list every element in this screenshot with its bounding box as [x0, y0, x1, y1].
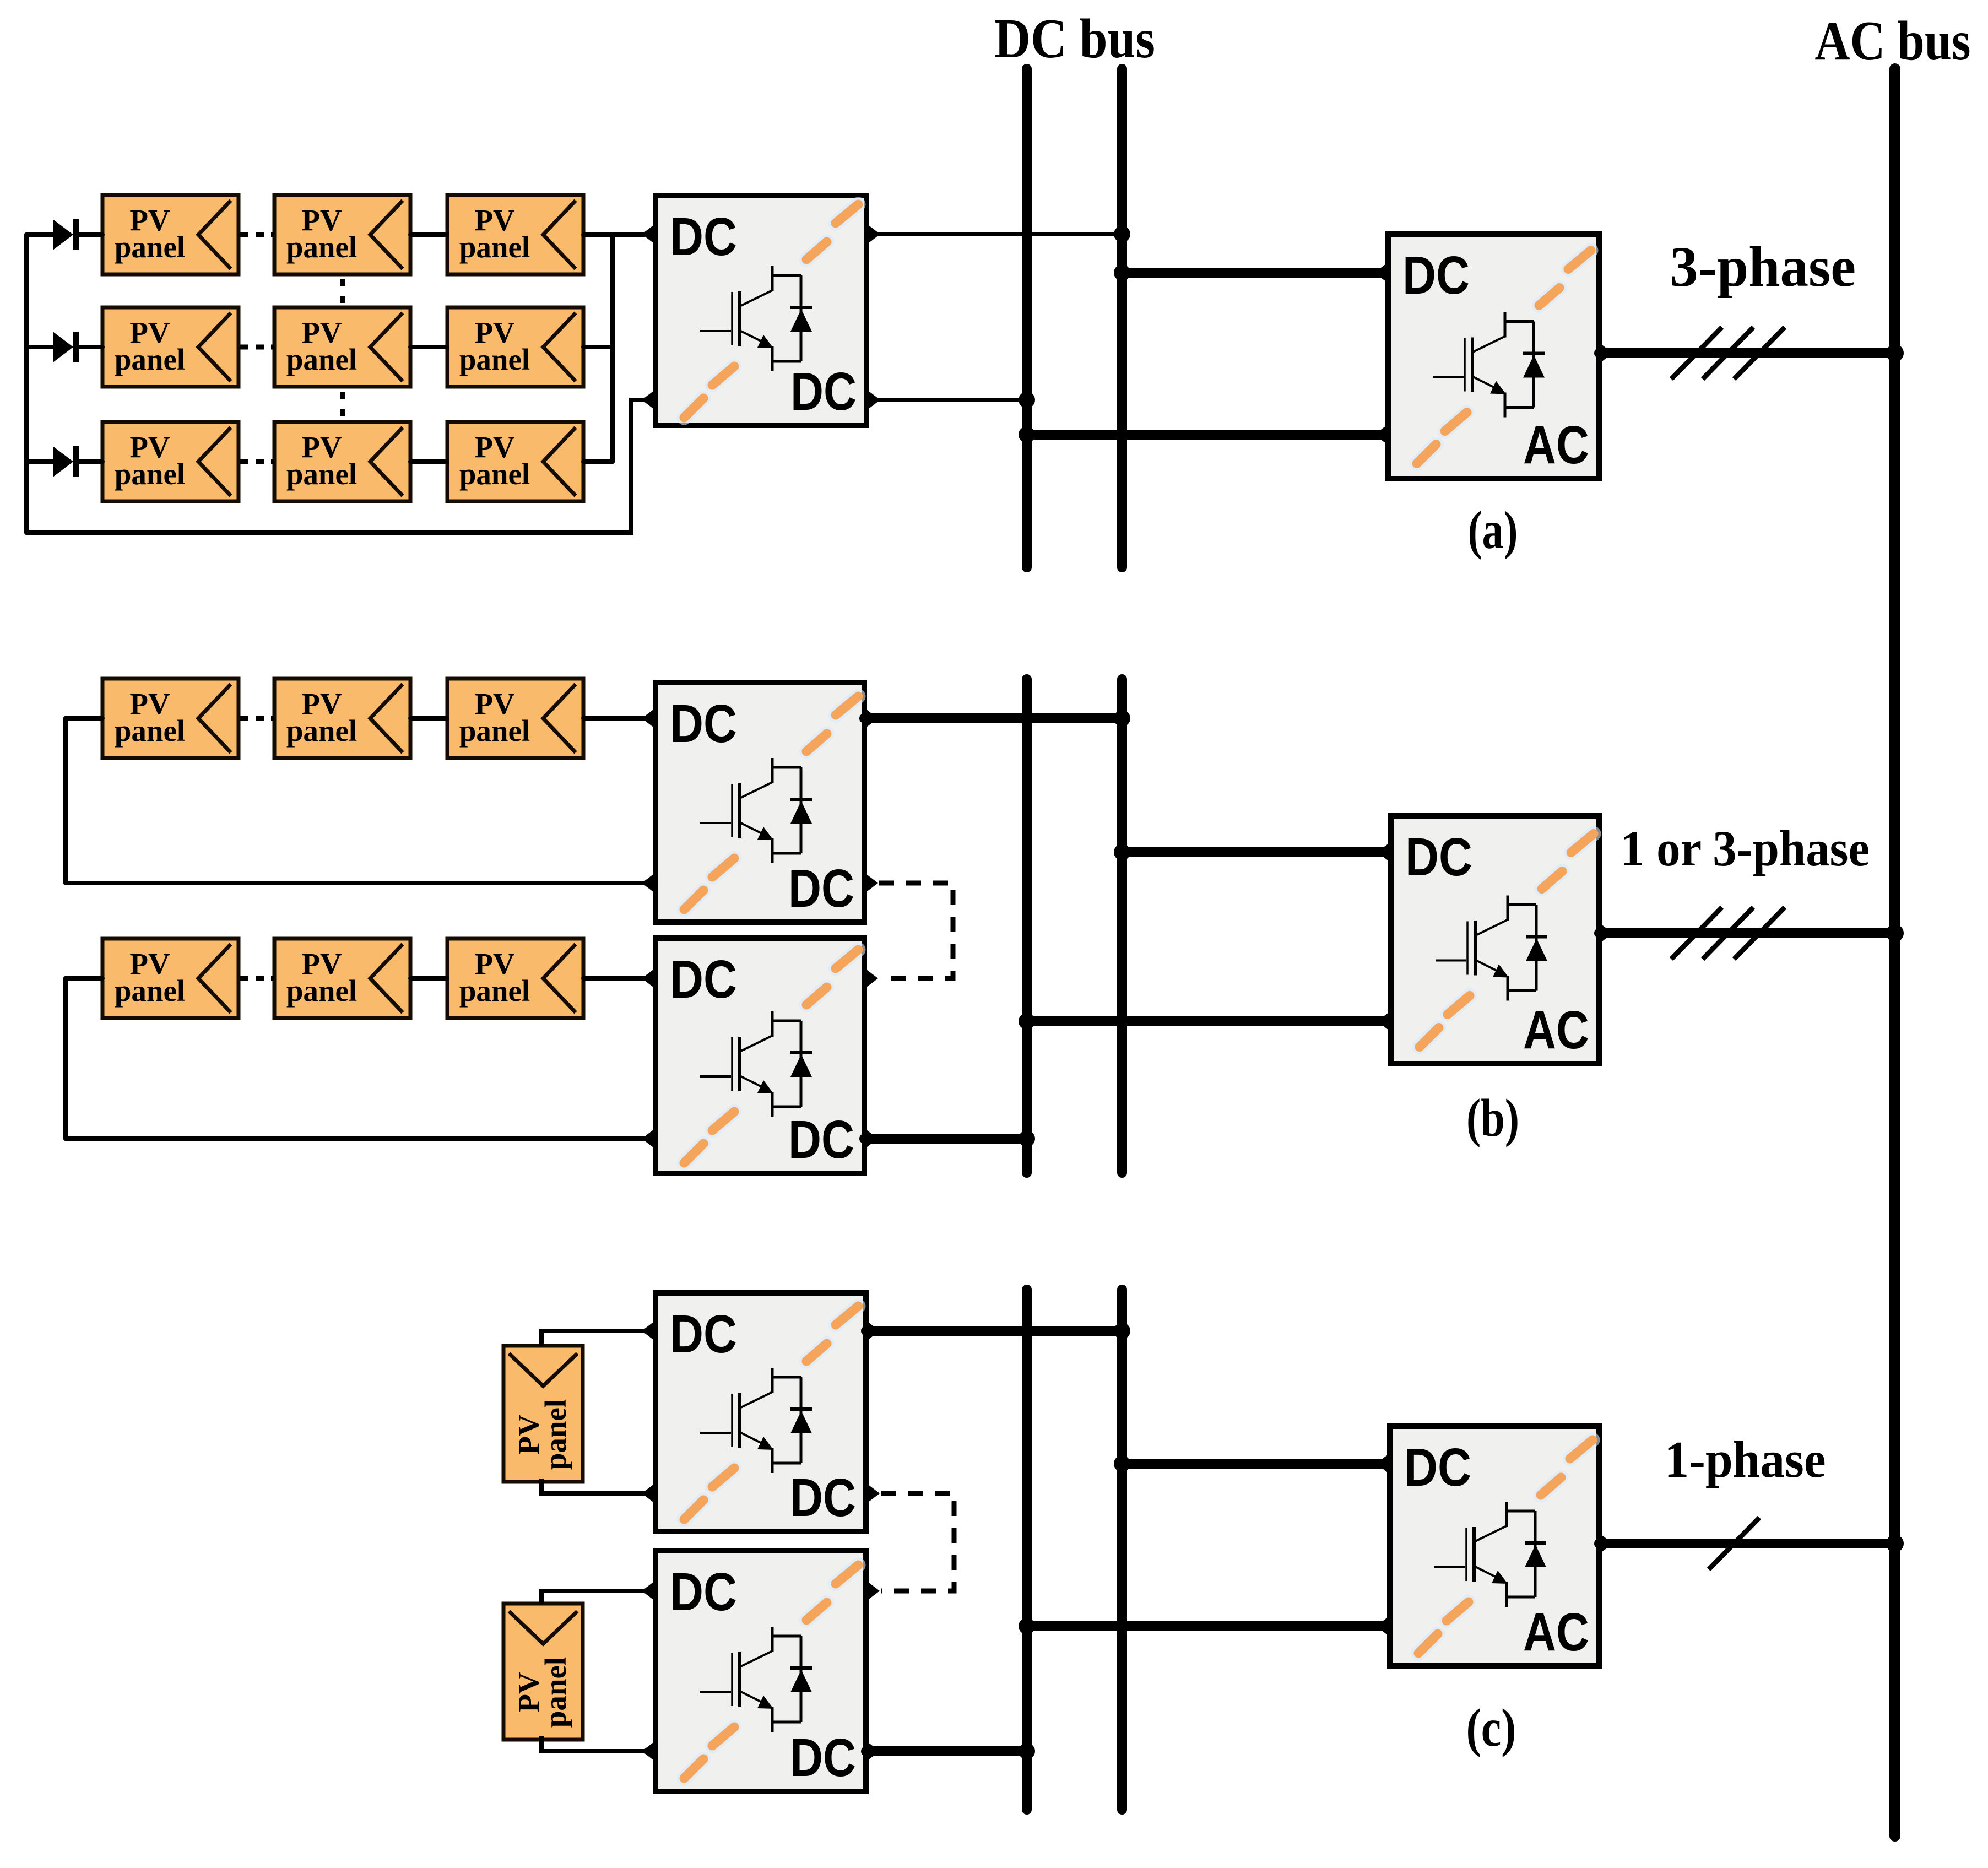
junction: DC bus 2 to U2 tap [1114, 264, 1130, 281]
U3 DC/DC converter (b1): IGBT switch with freewheeling diode [700, 758, 812, 863]
blocking diode D2 [53, 332, 73, 362]
U8 DC/AC inverter (c): orange isolation dashes (top-right) [1541, 1440, 1592, 1495]
U3 DC/DC converter (b1): orange isolation dashes (bottom-left) [684, 858, 734, 909]
wire: U3 top output to DC bus 2 [864, 713, 1122, 723]
wire: rail to panel b11 [66, 716, 102, 721]
wire (dashed): panel a31 to a32 [240, 459, 274, 464]
U4 DC/DC converter (b2): converter body [656, 938, 864, 1173]
wire: rail to diode D3 [26, 459, 54, 464]
U7: port connector [642, 1580, 656, 1601]
U7: port connector [642, 1741, 656, 1762]
blocking diode D1 [53, 219, 73, 250]
U7: port connector [866, 1580, 880, 1601]
svg-text:DC: DC [1404, 1437, 1471, 1497]
U4: port connector [864, 1128, 878, 1149]
wire (dashed): U6 bottom output to U7 top link [881, 1493, 954, 1591]
svg-text:DC: DC [790, 361, 857, 421]
U1: port connector [642, 224, 656, 245]
U5: port connector [1599, 923, 1613, 944]
wire: panel a32 to a33 [410, 459, 447, 464]
U4: port connector [642, 1128, 656, 1149]
wire (dashed): panel b11 to b12 [240, 716, 274, 721]
junction: DC bus 1 to U8 tap [1019, 1618, 1035, 1634]
PV panel a33 [447, 422, 583, 501]
U5 DC/AC inverter (b): IGBT switch with freewheeling diode [1436, 896, 1547, 1001]
wire: row a3 output to collector [583, 459, 613, 464]
U7: port connector [866, 1741, 880, 1762]
U1 DC/DC converter (a): converter body [656, 196, 866, 425]
wire: DC bus 1 to U2 bottom input [1027, 430, 1388, 440]
svg-text:DC: DC [670, 207, 737, 267]
3-phase slash marks (a) [1671, 327, 1785, 379]
U4 DC/DC converter (b2): IGBT switch with freewheeling diode [700, 1011, 812, 1117]
U2: port connector [1374, 424, 1388, 445]
svg-text:DC: DC [670, 1304, 737, 1364]
svg-text:(c): (c) [1466, 1698, 1516, 1758]
U4 DC/DC converter (b2): orange isolation dashes (bottom-left) [684, 1112, 734, 1163]
PV panel c1 (vertical) [503, 1346, 583, 1482]
svg-text:AC: AC [1523, 1602, 1589, 1662]
svg-text:(b): (b) [1466, 1089, 1519, 1148]
dotted continuation a1-a2 (middle column) [340, 279, 345, 305]
svg-text:AC: AC [1523, 415, 1589, 475]
wire (dashed): panel b21 to b22 [240, 976, 274, 981]
U7 DC/DC converter (c2): IGBT switch with freewheeling diode [700, 1627, 812, 1732]
U2: port connector [1599, 343, 1613, 364]
PV panel a21 [102, 307, 239, 387]
U6 DC/DC converter (c1): IGBT switch with freewheeling diode [700, 1368, 812, 1473]
U6: port connector [642, 1320, 656, 1341]
wire: U7 bottom output to DC bus 1 [866, 1746, 1027, 1756]
U2 DC/AC inverter (a): converter body [1388, 234, 1599, 479]
wire: panel c2 minus to U7 input [541, 1736, 644, 1751]
DC bus line 1, section (c) [1022, 1290, 1032, 1810]
svg-text:DC: DC [788, 858, 854, 918]
PV panel b12 [274, 679, 410, 758]
U8 DC/AC inverter (c): orange isolation dashes (bottom-left) [1418, 1602, 1469, 1653]
svg-text:DC: DC [788, 1109, 854, 1169]
PV panel c2 (vertical) [503, 1604, 583, 1740]
junction: DC bus 2 to U5 tap [1114, 844, 1130, 860]
U2: port connector [1374, 262, 1388, 283]
U4: port connector [642, 968, 656, 989]
PV panel a11 [102, 195, 239, 274]
wire: rail to diode D2 [26, 345, 54, 349]
wire (dashed): panel a11 to a12 [240, 232, 274, 237]
wire: U2 AC output to AC bus (3-phase) [1599, 348, 1895, 358]
junction: U1 bottom output on DC bus 1 [1019, 392, 1035, 408]
U5 DC/AC inverter (b): converter body [1391, 816, 1599, 1064]
wire: rail to diode D1 [26, 232, 54, 237]
junction: DC bus 1 to U5 tap [1019, 1013, 1035, 1030]
DC bus line 2, section (c) [1117, 1290, 1127, 1810]
PV panel a31 [102, 422, 239, 501]
U7 DC/DC converter (c2): converter body [656, 1551, 866, 1791]
svg-text:(a): (a) [1468, 501, 1518, 560]
wire: string b1 bottom return to U3 [66, 881, 644, 885]
junction: U2 output on AC bus [1886, 344, 1904, 362]
U8: port connector [1599, 1533, 1613, 1554]
junction: U3 output on DC bus 2 [1114, 710, 1130, 727]
wire: string b2 bottom return to U4 [66, 1136, 644, 1141]
PV panel b23 [447, 939, 583, 1018]
wire: U1 bottom output to DC bus 1 [866, 398, 1027, 402]
U8 DC/AC inverter (c): IGBT switch with freewheeling diode [1434, 1502, 1546, 1607]
U5: port connector [1377, 842, 1391, 863]
svg-text:AC: AC [1523, 1000, 1589, 1060]
1-phase slash mark (c) [1709, 1518, 1759, 1569]
svg-text:1-phase: 1-phase [1665, 1431, 1826, 1488]
wire (dashed): panel a21 to a22 [240, 345, 274, 350]
U6 DC/DC converter (c1): orange isolation dashes (top-right) [806, 1306, 858, 1361]
wire: panel c2 plus to U7 input [541, 1591, 644, 1604]
3-phase slash marks (b) [1671, 907, 1785, 959]
U6: port connector [866, 1320, 880, 1341]
junction: U1 top output on DC bus 2 [1114, 226, 1130, 242]
wire: panel b22 to b23 [410, 976, 447, 981]
wire: U6 top output to DC bus 2 [866, 1326, 1122, 1336]
svg-text:DC: DC [670, 694, 737, 754]
U7 DC/DC converter (c2): orange isolation dashes (bottom-left) [684, 1727, 734, 1778]
wire: DC bus 1 to U5 bottom input [1027, 1016, 1391, 1026]
U3: port connector [642, 708, 656, 729]
U3: port connector [642, 873, 656, 894]
PV panel a12 [274, 195, 410, 274]
U1 DC/DC converter (a): IGBT switch with freewheeling diode [700, 266, 812, 371]
U3: port connector [864, 873, 878, 894]
wire: panel c1 minus to U6 input [541, 1479, 644, 1493]
wire: string b2 left rail [63, 978, 68, 1139]
wire: string b1 left rail [63, 718, 68, 883]
U2 DC/AC inverter (a): IGBT switch with freewheeling diode [1433, 312, 1545, 418]
wire: string b2 output to U4 input [583, 976, 644, 981]
wire: U4 bottom output to DC bus 1 [864, 1134, 1027, 1144]
wire: panel a22 to a23 [410, 345, 447, 349]
wire: array (a) bottom return [26, 400, 644, 533]
U2 DC/AC inverter (a): orange isolation dashes (bottom-left) [1417, 413, 1467, 464]
svg-text:DC: DC [670, 949, 737, 1009]
wire: string b1 output to U3 input [583, 716, 644, 721]
U2 DC/AC inverter (a): orange isolation dashes (top-right) [1539, 251, 1591, 306]
wire: panel b12 to b13 [410, 716, 447, 721]
dotted continuation a2-a3 (middle column) [340, 392, 345, 419]
junction: U5 output on AC bus [1886, 924, 1904, 942]
svg-text:AC bus: AC bus [1815, 10, 1971, 72]
DC bus line 2, section (a) [1117, 69, 1127, 567]
U6 DC/DC converter (c1): converter body [656, 1293, 866, 1531]
U1 DC/DC converter (a): orange isolation dashes (top-right) [806, 204, 858, 259]
junction: U4 output on DC bus 1 [1019, 1130, 1035, 1147]
wire: panel c1 plus to U6 input [541, 1331, 644, 1346]
wire: DC bus 1 to U8 bottom input [1027, 1621, 1390, 1631]
U5 DC/AC inverter (b): orange isolation dashes (bottom-left) [1420, 996, 1470, 1047]
AC bus line [1889, 69, 1900, 1836]
U5: port connector [1377, 1011, 1391, 1032]
wire: left rail of array (a) [24, 235, 29, 533]
wire: right collector vertical (a) [610, 235, 615, 462]
PV panel a32 [274, 422, 410, 501]
svg-text:DC: DC [790, 1728, 856, 1788]
U8 DC/AC inverter (c): converter body [1390, 1426, 1599, 1666]
svg-text:DC: DC [790, 1468, 856, 1528]
wire: panel a12 to a13 [410, 232, 447, 237]
wire: U5 AC output to AC bus (1 or 3-phase) [1599, 928, 1895, 938]
wire: row a1 output to DC/DC input [583, 232, 644, 237]
U3 DC/DC converter (b1): orange isolation dashes (top-right) [806, 696, 858, 751]
wire: U8 AC output to AC bus (1-phase) [1599, 1539, 1895, 1548]
U8: port connector [1376, 1453, 1390, 1474]
wire: DC bus 2 to U5 top input [1122, 847, 1391, 857]
svg-text:DC: DC [1405, 827, 1472, 887]
junction: U8 output on AC bus [1886, 1535, 1904, 1552]
PV panel b21 [102, 939, 239, 1018]
U5 DC/AC inverter (b): orange isolation dashes (top-right) [1542, 834, 1594, 889]
wire: U1 top output to DC bus 2 [866, 232, 1122, 236]
wire: DC bus 2 to U8 top input [1122, 1459, 1390, 1469]
U8: port connector [1376, 1616, 1390, 1637]
U4: port connector [864, 968, 878, 989]
PV panel b11 [102, 679, 239, 758]
U1 DC/DC converter (a): orange isolation dashes (bottom-left) [684, 366, 734, 418]
U3 DC/DC converter (b1): converter body [656, 683, 864, 922]
junction: U7 output on DC bus 1 [1019, 1743, 1035, 1759]
svg-text:DC: DC [1402, 245, 1470, 305]
U6: port connector [642, 1483, 656, 1504]
wire: diode D1 to panel a11 [78, 232, 102, 237]
DC bus line 2, section (b) [1117, 679, 1127, 1173]
wire: rail to panel b21 [66, 976, 102, 981]
svg-text:DC bus: DC bus [994, 8, 1155, 70]
U1: port connector [866, 224, 880, 245]
junction: U6 output on DC bus 2 [1114, 1323, 1130, 1339]
PV panel b13 [447, 679, 583, 758]
U7 DC/DC converter (c2): orange isolation dashes (top-right) [806, 1565, 858, 1620]
wire: row a2 output to collector [583, 345, 613, 349]
PV panel a22 [274, 307, 410, 387]
wire: DC bus 2 to U2 top input [1122, 268, 1388, 278]
junction: DC bus 2 to U8 tap [1114, 1455, 1130, 1472]
U4 DC/DC converter (b2): orange isolation dashes (top-right) [806, 950, 858, 1005]
DC bus line 1, section (b) [1022, 679, 1032, 1173]
svg-text:3-phase: 3-phase [1670, 235, 1856, 299]
U6 DC/DC converter (c1): orange isolation dashes (bottom-left) [684, 1468, 734, 1519]
U1: port connector [866, 389, 880, 410]
PV panel a13 [447, 195, 583, 274]
svg-text:DC: DC [670, 1562, 737, 1622]
wire: diode D3 to panel a31 [78, 459, 102, 464]
wire (dashed): U3 bottom output to U4 top link [879, 883, 953, 978]
svg-text:1 or 3-phase: 1 or 3-phase [1621, 820, 1870, 876]
U1: port connector [642, 389, 656, 410]
junction: DC bus 1 to U2 tap [1019, 426, 1035, 443]
U3: port connector [864, 708, 878, 729]
U6: port connector [866, 1483, 880, 1504]
PV panel a23 [447, 307, 583, 387]
blocking diode D3 [53, 446, 73, 477]
DC bus line 1, section (a) [1022, 69, 1032, 567]
PV panel b22 [274, 939, 410, 1018]
wire: diode D2 to panel a21 [78, 345, 102, 349]
